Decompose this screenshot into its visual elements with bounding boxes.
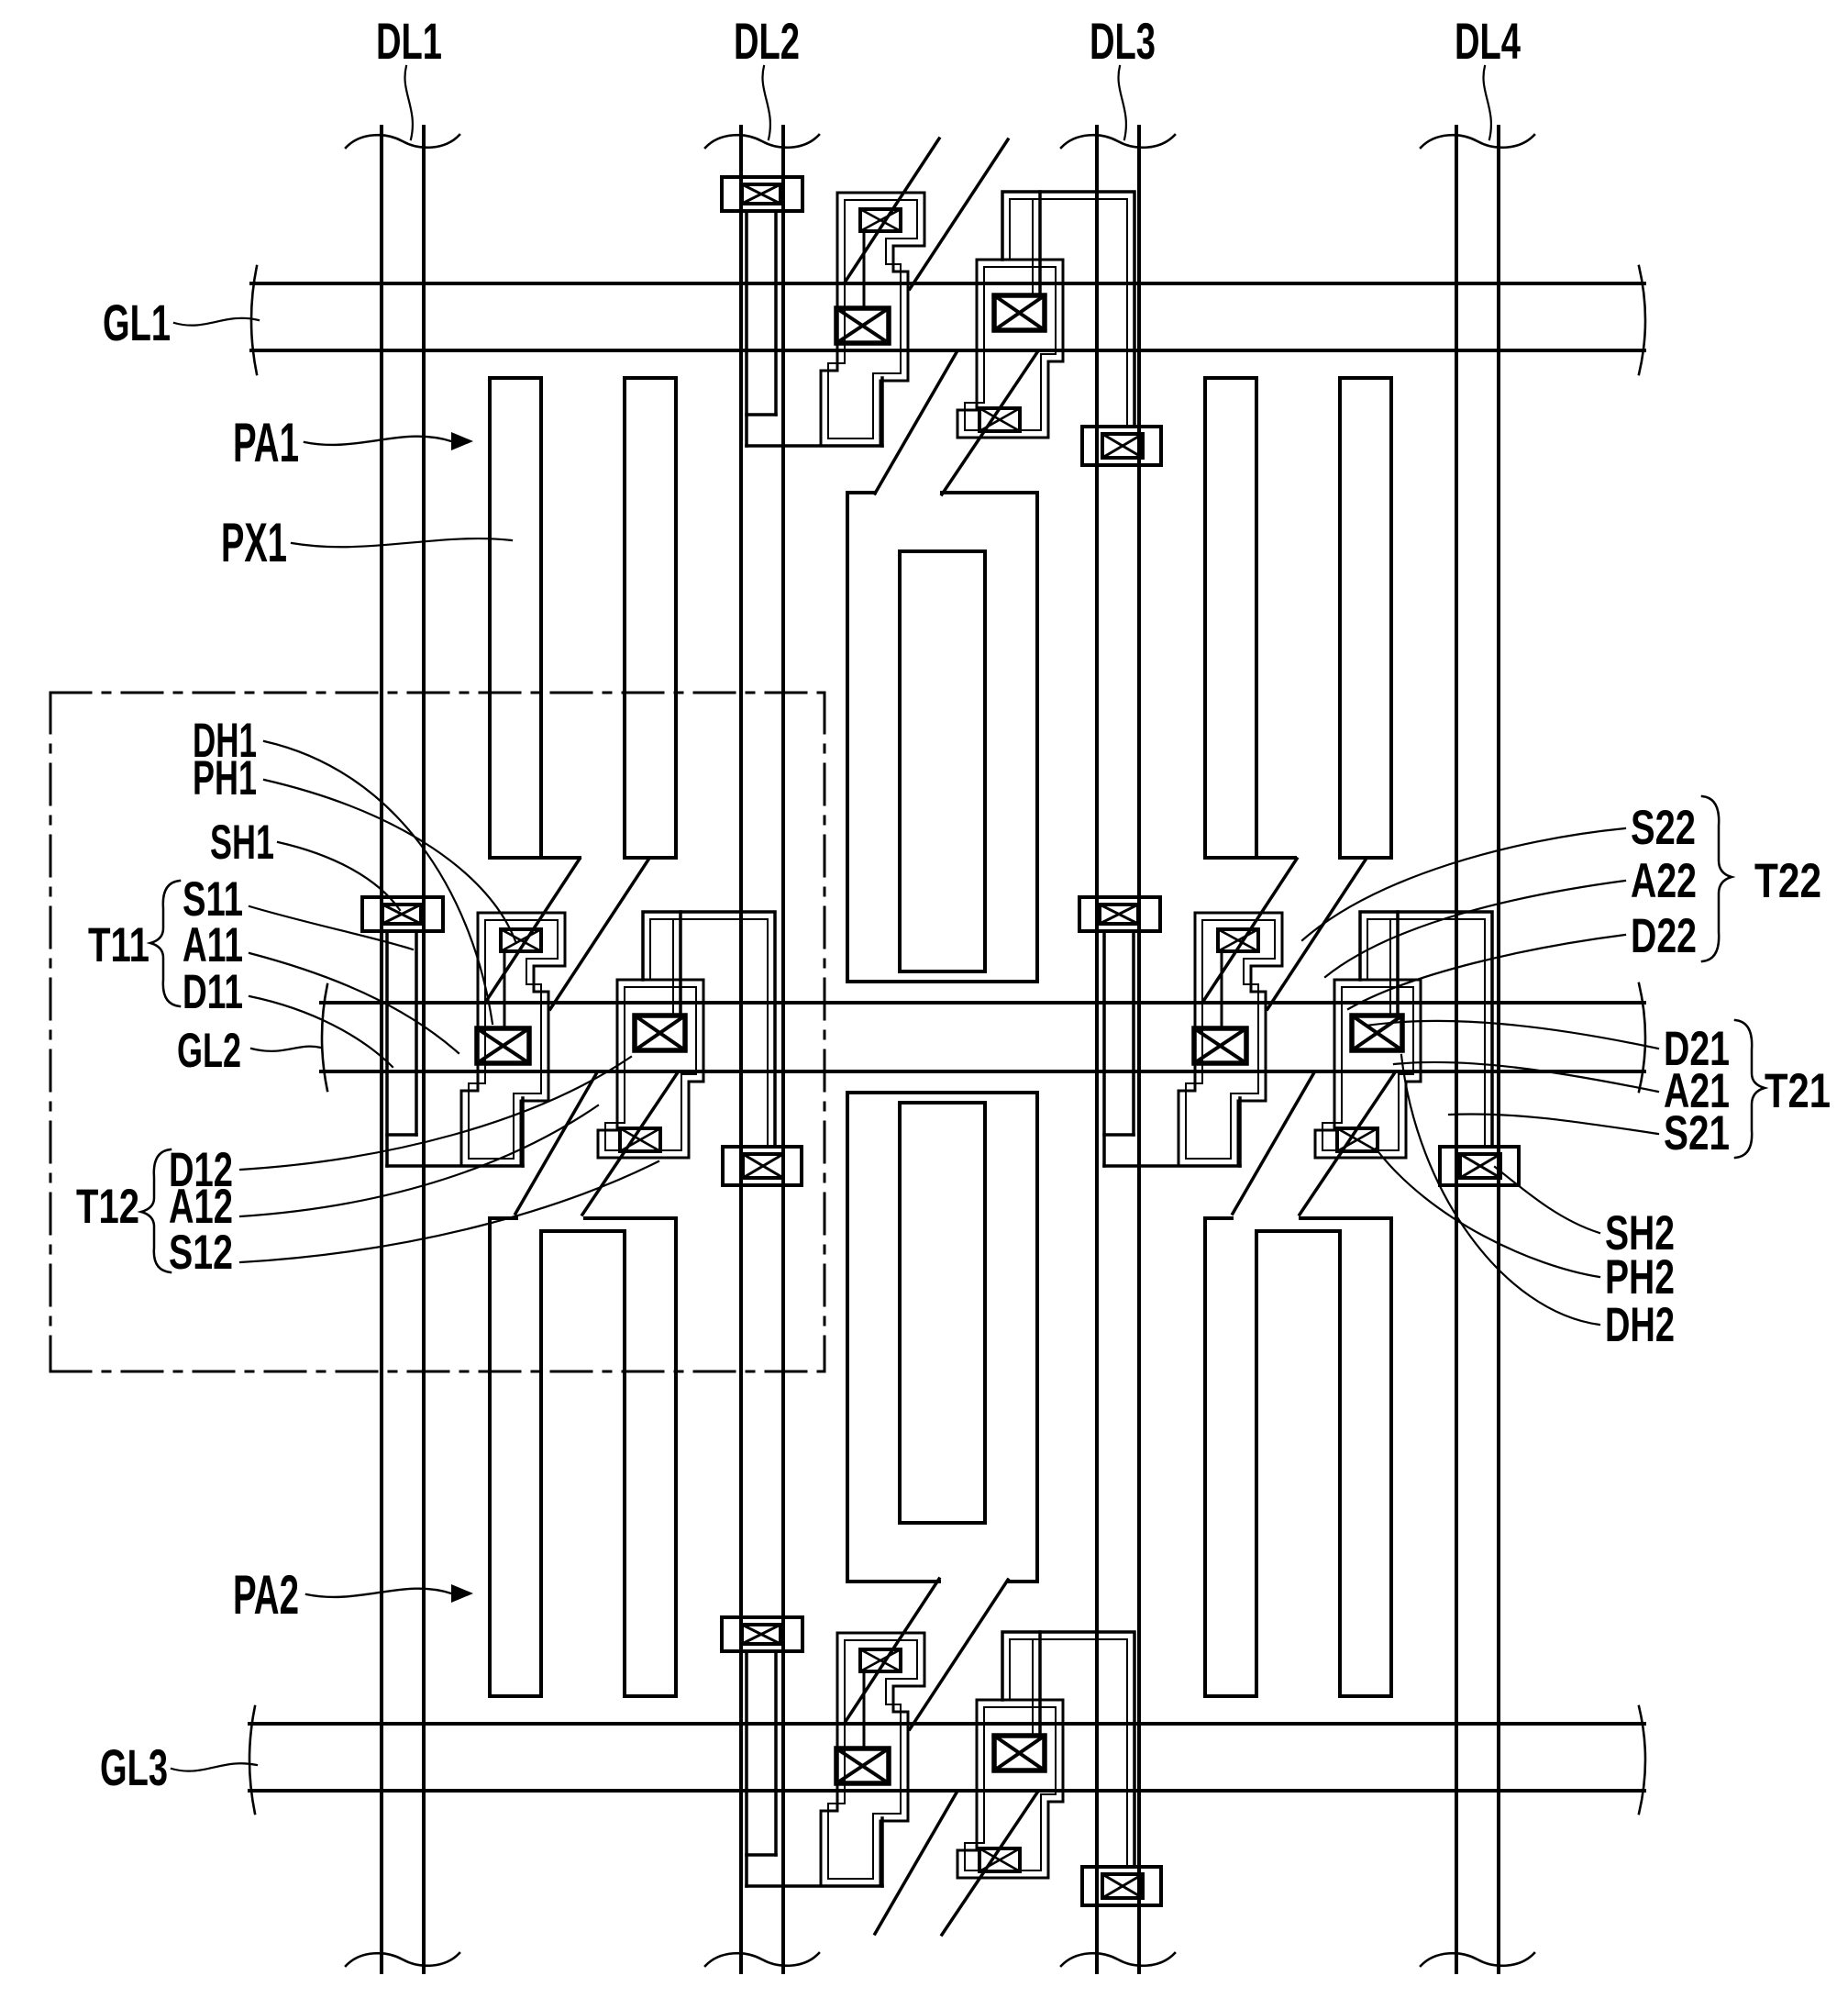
svg-text:S21: S21: [1664, 1106, 1730, 1160]
svg-text:PH2: PH2: [1605, 1250, 1675, 1304]
svg-text:DL4: DL4: [1455, 12, 1521, 70]
svg-text:GL2: GL2: [177, 1024, 241, 1078]
svg-text:PX1: PX1: [221, 512, 287, 573]
svg-text:T12: T12: [76, 1180, 139, 1234]
svg-text:T11: T11: [88, 918, 149, 972]
svg-text:A22: A22: [1631, 854, 1697, 908]
svg-text:GL3: GL3: [100, 1738, 168, 1796]
svg-text:D22: D22: [1631, 909, 1697, 963]
svg-text:DL2: DL2: [734, 12, 800, 70]
svg-text:T21: T21: [1765, 1064, 1831, 1118]
svg-text:GL1: GL1: [103, 294, 171, 351]
svg-text:S22: S22: [1631, 801, 1696, 855]
svg-text:PA2: PA2: [233, 1564, 299, 1626]
svg-text:PH1: PH1: [193, 751, 257, 805]
svg-text:S12: S12: [169, 1226, 233, 1280]
svg-text:PA1: PA1: [233, 412, 299, 473]
svg-text:DH2: DH2: [1605, 1298, 1675, 1352]
svg-text:D11: D11: [183, 965, 243, 1019]
svg-text:DL1: DL1: [376, 12, 442, 70]
svg-text:DL3: DL3: [1090, 12, 1156, 70]
svg-text:T22: T22: [1754, 854, 1821, 908]
svg-text:SH1: SH1: [210, 816, 274, 870]
